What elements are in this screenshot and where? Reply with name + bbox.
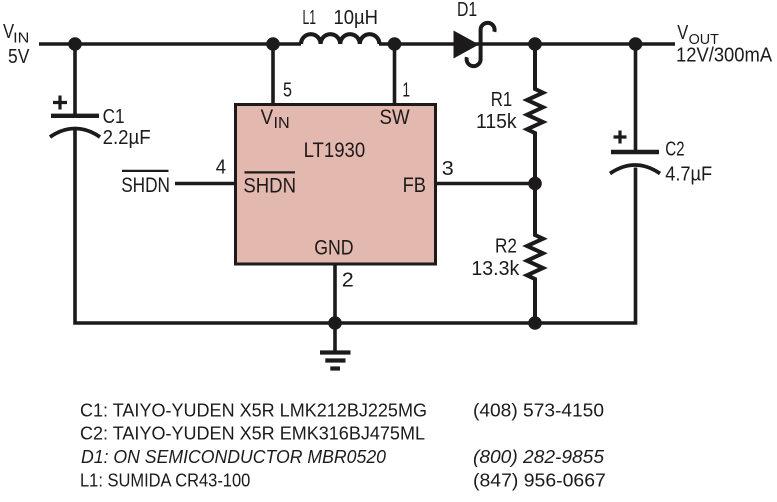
svg-text:4.7µF: 4.7µF [665,164,712,186]
wire: inductor to VOUT rail [379,42,675,46]
node: diode cathode / R1 top [528,37,542,51]
node: GND pin on bus [328,316,342,330]
wire: C1 stem, ground bus, C2 stem [75,129,636,323]
svg-text:SHDN: SHDN [121,174,170,197]
svg-text:IN: IN [274,115,290,132]
capacitor C1 plus sign [53,96,67,110]
svg-text:C2: C2 [665,139,684,161]
wire: VIN node to C1 top [73,44,77,114]
diode D1 triangle [454,31,480,59]
svg-text:V: V [677,22,689,44]
svg-text:C1: TAIYO-YUDEN X5R LMK212BJ22: C1: TAIYO-YUDEN X5R LMK212BJ225MG [80,399,427,420]
svg-text:L1: SUMIDA CR43-100: L1: SUMIDA CR43-100 [80,469,250,490]
svg-text:SW: SW [380,106,410,129]
node: inductor left / pin5 [266,37,280,51]
svg-text:GND: GND [314,237,353,260]
svg-text:10µH: 10µH [334,7,379,29]
capacitor C1 top plate [51,114,99,118]
svg-text:1: 1 [402,79,410,101]
wire: VIN input rail to inductor [39,42,301,46]
svg-text:C1: C1 [103,106,125,128]
svg-text:12V/300mA: 12V/300mA [676,44,773,66]
svg-text:5V: 5V [8,46,30,68]
svg-text:L1: L1 [303,7,317,29]
svg-text:R2: R2 [495,235,517,257]
wire: pin 5 VIN [271,44,275,105]
svg-text:D1: ON SEMICONDUCTOR MBR0520: D1: ON SEMICONDUCTOR MBR0520 [81,446,387,467]
inductor L1 [301,34,379,44]
svg-text:13.3k: 13.3k [471,258,520,280]
wire: pin 1 SW [393,44,397,105]
capacitor C2 curved plate [610,165,660,174]
resistor R1 [527,44,543,184]
svg-text:2.2µF: 2.2µF [103,127,151,149]
svg-text:115k: 115k [476,111,518,133]
svg-text:LT1930: LT1930 [304,139,366,162]
svg-text:FB: FB [403,174,426,197]
node: R2 bottom on bus [528,316,542,330]
svg-text:IN: IN [13,30,29,47]
svg-text:5: 5 [283,79,292,101]
capacitor C2 plus sign [614,131,627,144]
ground symbol [320,323,351,369]
svg-text:V: V [261,106,274,129]
capacitor C1 curved plate [50,129,100,138]
wire: SHDN input to pin 4 [175,182,235,186]
IC U1 LT1930 body [236,105,436,265]
wire: pin 3 FB to divider [436,182,535,186]
svg-text:C2: TAIYO-YUDEN X5R EMK316BJ47: C2: TAIYO-YUDEN X5R EMK316BJ475ML [80,423,425,444]
svg-text:(408) 573-4150: (408) 573-4150 [473,399,604,420]
svg-text:2: 2 [342,270,354,292]
wire: pin 2 GND [333,263,337,323]
capacitor C2 top plate [611,150,659,154]
diode D1 schottky cathode bar [467,23,495,66]
wire: VOUT node to C2 top [634,44,638,150]
svg-text:SHDN: SHDN [243,174,296,197]
node: VIN/C1 junction [68,37,82,51]
resistor R2 [527,184,543,324]
svg-text:(847) 956-0667: (847) 956-0667 [473,469,606,490]
node: inductor right / pin1 [388,37,402,51]
node: FB divider junction [528,177,542,191]
node: VOUT / C2 top [629,37,643,51]
svg-text:3: 3 [442,158,454,180]
svg-text:R1: R1 [491,89,512,111]
svg-text:(800) 282-9855: (800) 282-9855 [473,446,605,467]
svg-text:D1: D1 [457,0,477,21]
BOM text block [80,399,606,490]
svg-text:4: 4 [216,156,226,178]
